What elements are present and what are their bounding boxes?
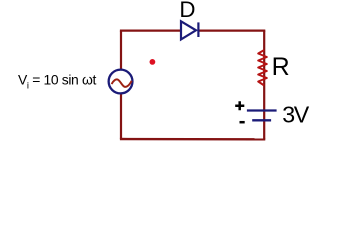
svg-text:D: D (179, 0, 195, 22)
battery - terminal label (240, 121, 245, 124)
battery 3V top plate (+) (247, 109, 277, 111)
wire top segment left (corner to diode anode) (120, 30, 181, 32)
svg-text:Vi = 10 sin ωt: Vi = 10 sin ωt (18, 71, 96, 91)
battery 3V bottom plate (-) (252, 119, 271, 121)
voltage source circle (109, 70, 133, 94)
diode D cathode bar (197, 22, 199, 37)
wire left vertical (120, 31, 122, 139)
voltage source sine wave (112, 79, 132, 86)
wire top segment right (diode cathode to corner) (198, 30, 265, 32)
svg-text:3V: 3V (282, 102, 309, 128)
svg-text:R: R (272, 53, 290, 81)
wire right vertical (through resistor and battery region) (263, 31, 265, 140)
resistor R zigzag (258, 50, 267, 86)
diode D triangle (181, 21, 196, 39)
battery + terminal label (235, 101, 244, 110)
node dot (red marker) (150, 59, 156, 65)
wire bottom (120, 138, 265, 141)
